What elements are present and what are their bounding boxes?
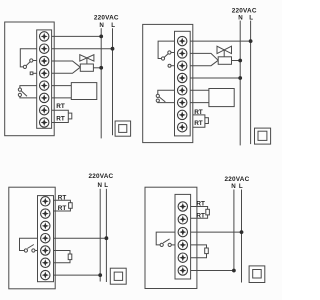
terminal 3 — [178, 61, 187, 70]
thermistor RT body Q2 — [205, 118, 209, 124]
resistor body Q4 — [205, 248, 209, 254]
wire funnel T3 to valve actuator — [182, 60, 218, 65]
terminal 7 — [40, 106, 49, 115]
wire T5 left to switch S2 — [20, 86, 44, 88]
svg-text:RT: RT — [194, 109, 203, 116]
wire T4 to N — [182, 77, 240, 79]
svg-text:L: L — [249, 15, 253, 22]
switch S2 blade — [21, 91, 27, 97]
switch S1 blade — [26, 62, 30, 66]
junction T3-L Q4 — [240, 230, 244, 234]
wire resistor to T5 Q4 — [191, 254, 207, 258]
wire thermistor RT to T8 Q2 — [193, 124, 205, 128]
terminal 7 — [178, 110, 187, 119]
wire T1 to thermistor RT Q3 — [54, 200, 71, 202]
switch S4 contact a — [160, 243, 163, 246]
wire switch S2 to T6 — [158, 101, 182, 103]
switch S4 blade — [163, 239, 170, 243]
wire T5 to heater box — [44, 85, 71, 87]
wall box symbol Q4 — [249, 266, 265, 283]
wire T1 left to switch S1 — [158, 41, 182, 58]
switch S1 contact a — [23, 65, 26, 68]
wire T1 to L — [182, 40, 250, 42]
net L line Q3 — [105, 189, 107, 282]
svg-text:RT: RT — [196, 212, 205, 219]
terminal 2 — [41, 209, 50, 218]
net N line Q2 — [239, 21, 241, 146]
junction T6-N Q4 — [232, 269, 236, 273]
terminal 4 — [178, 73, 187, 82]
switch S2 contact a — [18, 88, 21, 91]
net L line Q2 — [250, 21, 252, 145]
controller enclosure Q1 — [5, 22, 55, 136]
wire T4 left stub — [33, 72, 44, 74]
terminal 4 — [40, 69, 49, 78]
wire T4 to L Q3 — [45, 237, 106, 239]
net N line Q3 — [99, 189, 101, 282]
connector circle at T3 — [168, 64, 171, 67]
wall box symbol Q3 — [110, 268, 126, 284]
switch S4 contact b — [168, 243, 171, 246]
wire T5 to resistor Q3 — [54, 251, 71, 255]
wire thermistor RT to T2 Q4 — [191, 215, 208, 218]
terminal 5 — [178, 253, 187, 262]
svg-text:220VAC: 220VAC — [94, 15, 119, 22]
wire T3 left stub — [171, 65, 182, 67]
wire actuator to N Q2 — [232, 60, 241, 62]
switch S1 contact b — [168, 51, 171, 54]
wire switch S1 to T3 — [33, 60, 44, 62]
terminal 1 — [178, 202, 187, 211]
terminal 4 — [41, 234, 50, 243]
wire switch S4 to T4 — [171, 244, 183, 246]
controller enclosure Q3 — [9, 187, 55, 289]
svg-text:N: N — [231, 183, 236, 190]
switch S2 contact a — [156, 94, 159, 97]
terminal 4 — [178, 240, 187, 249]
terminal 7 — [41, 270, 50, 279]
valve V2 body — [217, 46, 232, 53]
terminal 1 — [41, 197, 50, 206]
terminal 3 — [41, 221, 50, 230]
wire switch S1 to T2 — [171, 52, 182, 54]
switch S3 contact a — [24, 249, 27, 252]
switch S2 blade — [159, 97, 165, 102]
junction T4-L Q3 — [105, 236, 109, 240]
terminal 1 — [178, 36, 187, 45]
svg-text:RT: RT — [56, 116, 65, 123]
controller enclosure Q2 — [143, 24, 193, 142]
switch S2 contact b — [18, 93, 21, 96]
wire T2 left to switch S1 — [20, 49, 44, 67]
svg-text:N: N — [238, 15, 243, 22]
terminal 3 — [178, 227, 187, 236]
wire switch S3 to T5 — [35, 250, 45, 252]
svg-text:RT: RT — [196, 201, 205, 208]
thermistor RT body — [68, 113, 72, 119]
svg-text:RT: RT — [56, 103, 65, 110]
wire T1 to N — [44, 35, 101, 37]
svg-text:N: N — [99, 22, 104, 29]
terminal 5 — [41, 246, 50, 255]
svg-text:220VAC: 220VAC — [88, 173, 113, 180]
net N line Q1 — [100, 28, 102, 138]
terminal 2 — [178, 49, 187, 58]
switch S1 blade — [164, 54, 168, 58]
wire T6 to heater box Q2 — [182, 102, 209, 104]
svg-text:220VAC: 220VAC — [232, 7, 257, 14]
thermistor RT body Q3 — [69, 203, 73, 209]
wall box symbol Q2 — [255, 128, 271, 144]
switch S3 contact b — [32, 249, 35, 252]
junction T2-L — [111, 47, 115, 51]
terminal 6 — [41, 258, 50, 267]
switch S2 contact b — [156, 99, 159, 102]
valve actuator box — [80, 64, 93, 71]
net L line Q4 — [241, 190, 243, 283]
wire resistor to T6 Q3 — [54, 260, 71, 263]
svg-text:RT: RT — [194, 120, 203, 127]
switch S1 contact a — [161, 57, 164, 60]
svg-text:L: L — [239, 183, 243, 190]
wire T5 left to switch S2 — [158, 90, 182, 94]
switch S1 contact b — [30, 59, 33, 62]
svg-text:RT: RT — [58, 194, 67, 201]
net L line Q1 — [112, 28, 114, 135]
resistor body Q3 — [68, 254, 72, 260]
wire T6 to heater box — [44, 97, 71, 99]
svg-text:220VAC: 220VAC — [225, 176, 250, 183]
terminal 8 — [40, 118, 49, 127]
terminal strip Q3 — [38, 196, 54, 282]
thermistor RT body Q4 — [206, 209, 210, 215]
heater box Q2 — [209, 89, 234, 107]
terminal 6 — [40, 93, 49, 102]
terminal 8 — [178, 123, 187, 132]
wire thermistor RT to T2 Q3 — [54, 208, 71, 211]
wire T3 left to switch S4 — [156, 232, 183, 245]
svg-text:L: L — [104, 182, 108, 189]
wire T7 to N Q3 — [45, 274, 100, 276]
svg-text:L: L — [111, 22, 115, 29]
wire funnel T2 to valve actuator — [182, 53, 218, 60]
wire T5 to heater box Q2 — [182, 89, 209, 91]
wire T2 to L — [44, 48, 112, 50]
net N line Q4 — [233, 190, 235, 273]
svg-text:N: N — [97, 182, 102, 189]
terminal 2 — [178, 215, 187, 224]
wire T7 to thermistor RT Q2 — [193, 115, 205, 118]
heater box — [71, 83, 97, 100]
wall box symbol Q1 — [115, 121, 131, 136]
terminal 5 — [40, 81, 49, 90]
wire funnel T4 to valve actuator — [44, 67, 80, 73]
valve V2 stem — [223, 50, 225, 57]
wire thermistor RT to T8 — [52, 119, 69, 123]
controller enclosure Q4 — [145, 187, 197, 288]
wire funnel T3 to valve actuator — [44, 61, 80, 67]
terminal strip Q4 — [175, 194, 191, 279]
terminal 1 — [40, 32, 49, 41]
valve actuator box Q2 — [218, 57, 231, 65]
wire T7 to thermistor RT — [52, 110, 69, 113]
wire actuator to N — [93, 67, 101, 69]
junction T1-L Q2 — [249, 39, 253, 43]
junction actuator-N — [99, 66, 103, 70]
wire T4 left to switch S3 — [20, 238, 46, 250]
connector square at T4 — [30, 72, 33, 75]
terminal 2 — [40, 44, 49, 53]
junction T7-N Q3 — [98, 273, 102, 277]
terminal 6 — [178, 98, 187, 107]
valve V1 body — [80, 55, 94, 61]
terminal strip Q2 — [175, 31, 191, 136]
wire T4 to resistor Q4 — [191, 245, 207, 248]
terminal strip Q1 — [37, 30, 52, 128]
switch S3 blade — [27, 245, 34, 249]
terminal 3 — [40, 56, 49, 65]
junction T4-N Q2 — [238, 76, 242, 80]
junction T1-N — [99, 35, 103, 39]
wire T6 to N Q4 — [183, 270, 234, 272]
wire switch S2 to T6 — [20, 97, 44, 98]
svg-text:RT: RT — [58, 205, 67, 212]
junction actuator-N Q2 — [238, 59, 242, 63]
terminal 6 — [178, 266, 187, 275]
terminal 5 — [178, 86, 187, 95]
valve V1 stem — [86, 58, 88, 64]
wire T1 to thermistor RT Q4 — [191, 207, 208, 210]
wire T3 to L Q4 — [183, 231, 242, 233]
